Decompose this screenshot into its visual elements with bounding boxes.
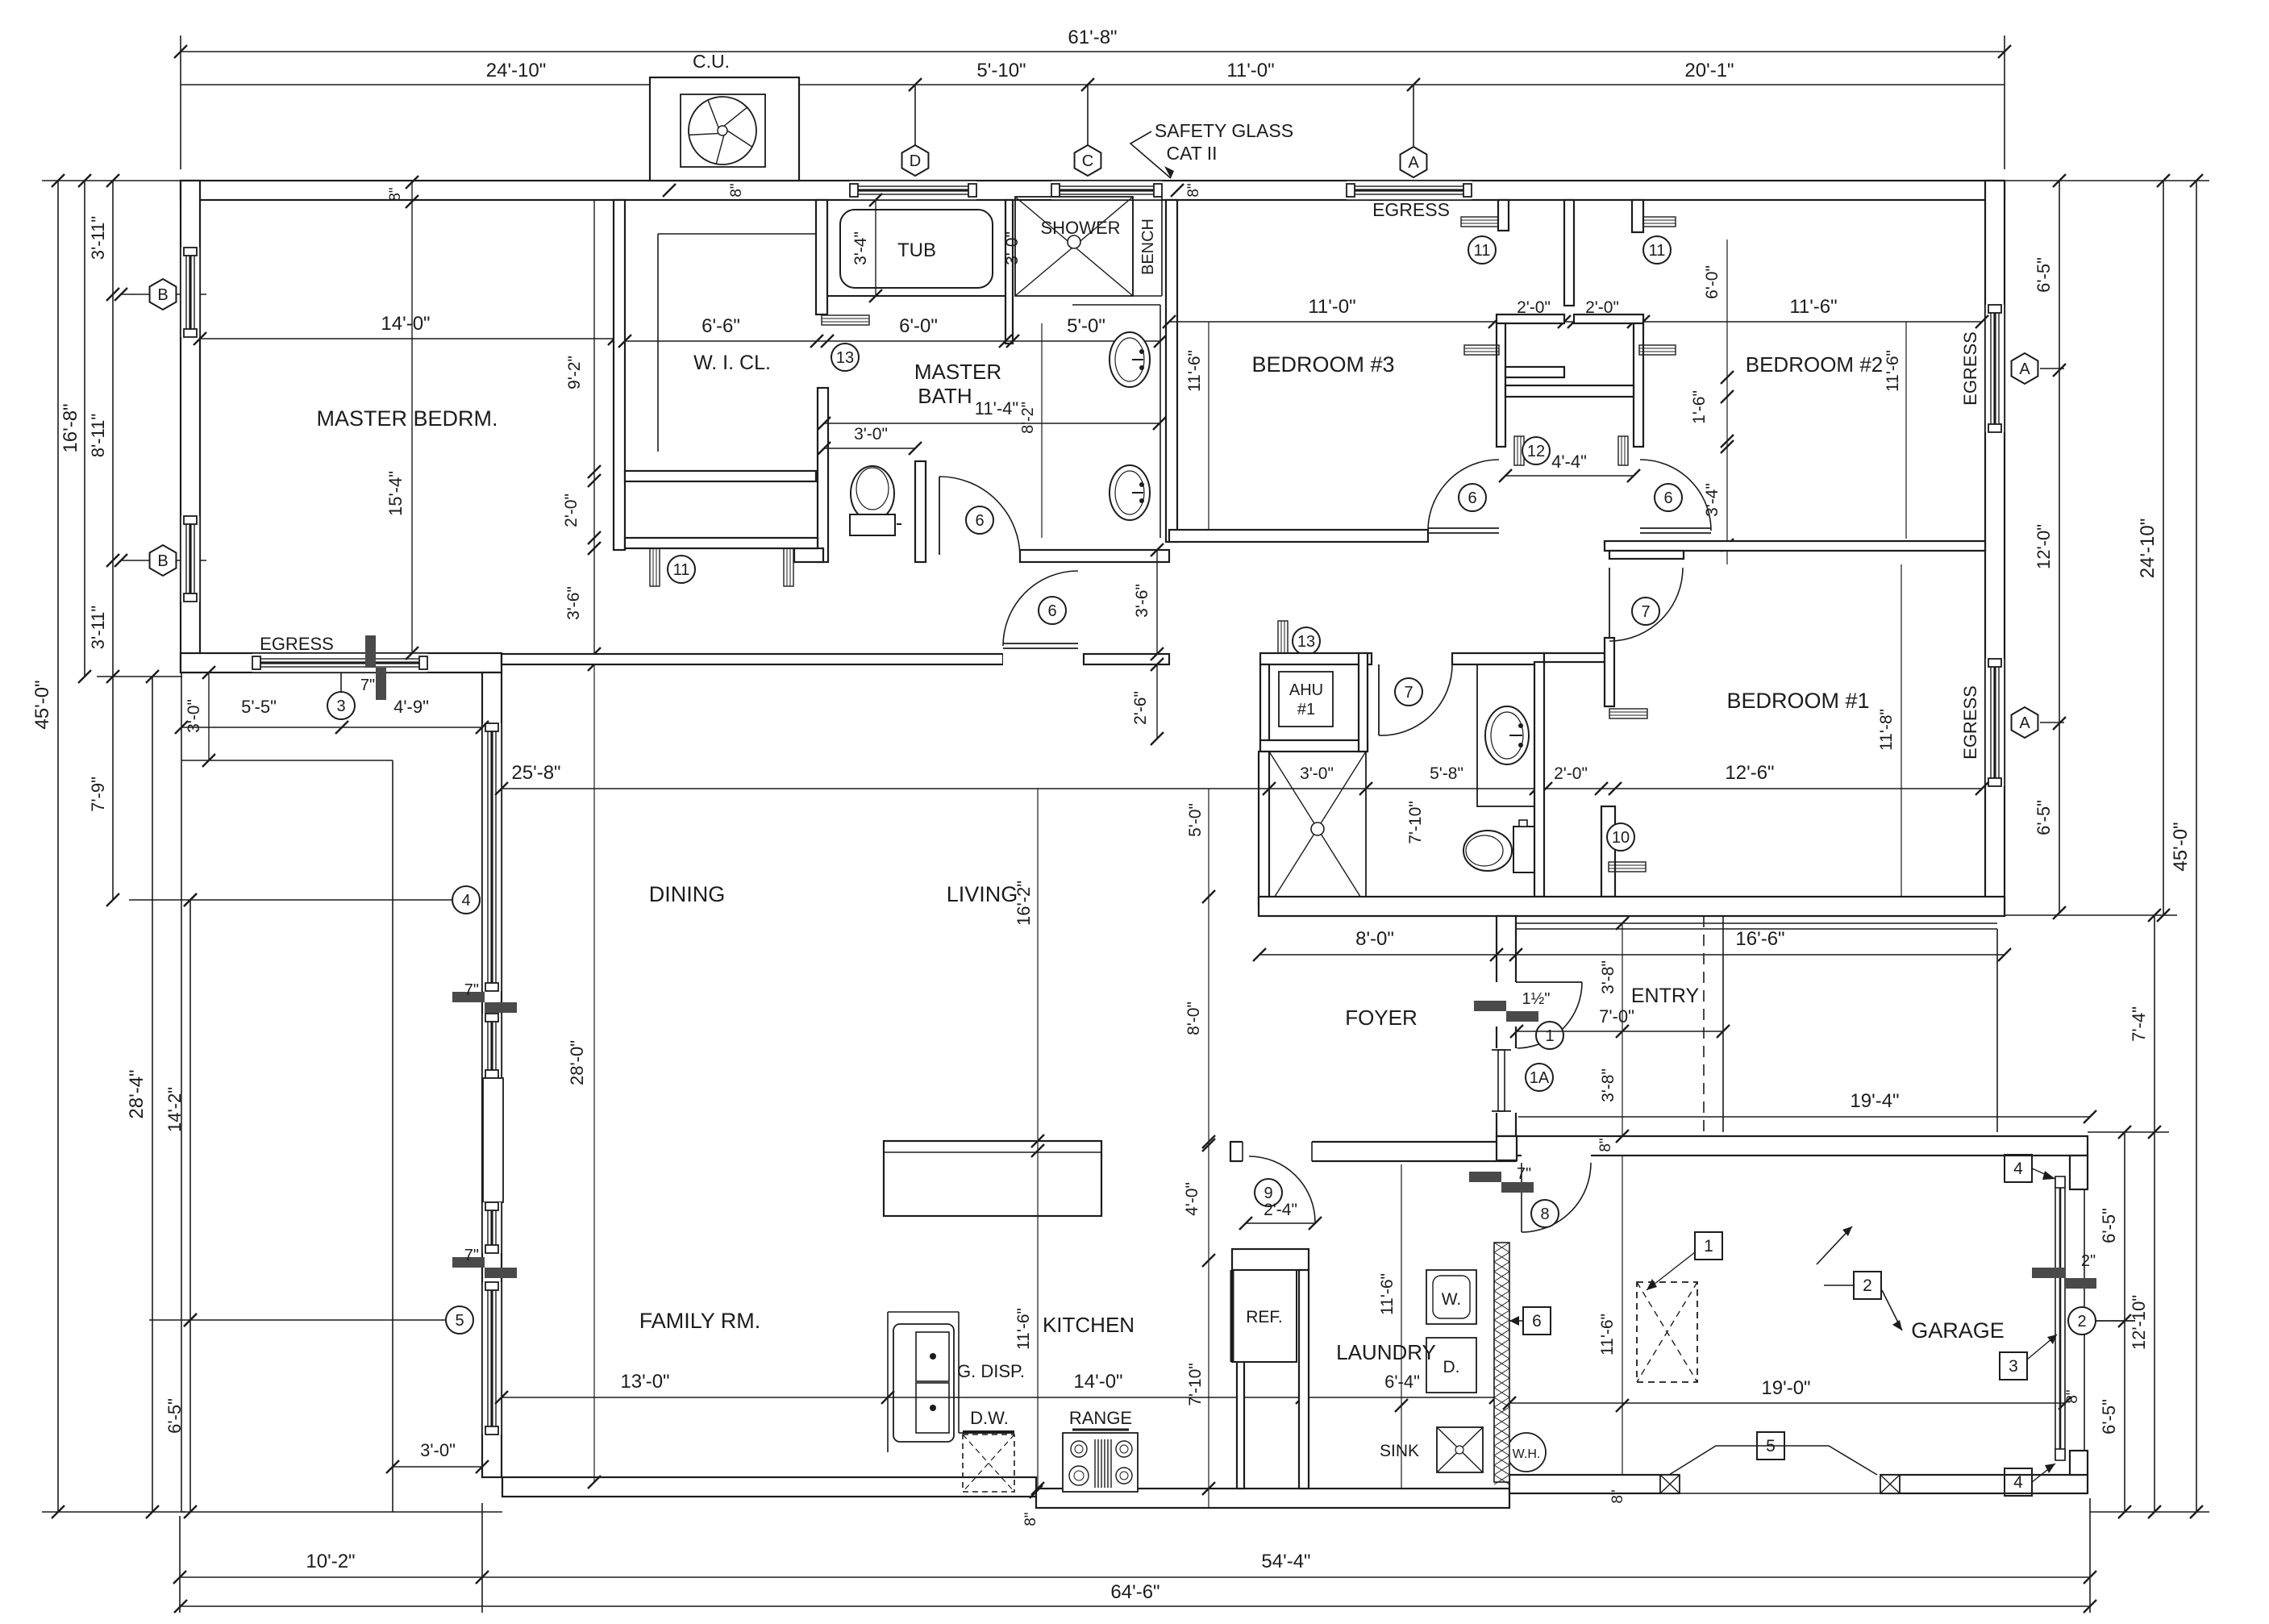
dim 2'-4" pantry — [1246, 1222, 1315, 1224]
callout 12 closets — [1522, 437, 1550, 464]
svg-text:11: 11 — [673, 561, 690, 579]
closet rod bedroom3 top — [1461, 217, 1498, 227]
svg-text:4: 4 — [2013, 1160, 2023, 1178]
dim 9'-2" WIC — [593, 200, 595, 664]
svg-text:54'-4": 54'-4" — [1261, 1551, 1310, 1572]
refrigerator niche — [1232, 1249, 1309, 1270]
dim 7'-0" entry — [1517, 1031, 1723, 1032]
dim 2'-6" AHU — [1156, 664, 1158, 739]
garage door opening — [1680, 1473, 1880, 1495]
kitchen sink double — [893, 1324, 954, 1442]
garage east window band — [2055, 1176, 2056, 1460]
svg-text:A: A — [2019, 714, 2030, 732]
svg-text:11'-6": 11'-6" — [1378, 1273, 1397, 1315]
svg-text:C.U.: C.U. — [693, 51, 730, 72]
window master bedroom west upper — [181, 248, 200, 337]
future X dashed — [1637, 1282, 1697, 1382]
svg-text:BEDROOM #2: BEDROOM #2 — [1746, 352, 1884, 377]
wall bottom garage — [1509, 1475, 2088, 1493]
wall bedroom3 south — [1169, 530, 1428, 542]
wall bedroom2 south — [1605, 541, 1985, 551]
svg-text:G. DISP.: G. DISP. — [957, 1361, 1025, 1381]
svg-text:3'-0": 3'-0" — [420, 1440, 456, 1460]
svg-text:4'-4": 4'-4" — [1551, 452, 1587, 472]
svg-text:11'-4": 11'-4" — [975, 398, 1018, 418]
grid bubble B upper — [121, 294, 206, 295]
svg-text:10: 10 — [1612, 829, 1630, 847]
svg-text:D.W.: D.W. — [970, 1408, 1009, 1428]
tag 1 garage — [1695, 1232, 1722, 1260]
dim 14'-0" master — [200, 338, 614, 339]
svg-text:19'-0": 19'-0" — [1761, 1377, 1810, 1399]
svg-text:SAFETY GLASS: SAFETY GLASS — [1155, 120, 1293, 141]
entry porch line top — [1517, 922, 1997, 924]
dim row 11'-0"/2'-0"/2'-0"/11'-6" — [1169, 321, 1982, 323]
dim row center 25'-8" etc — [502, 788, 1982, 789]
wall hall-bath top — [1452, 653, 1544, 664]
svg-text:8": 8" — [728, 183, 745, 197]
garage door tag 5 — [1757, 1432, 1784, 1460]
svg-text:14'-0": 14'-0" — [381, 313, 430, 335]
entry porch line right — [1996, 929, 1998, 1132]
wall foyer east — [1497, 916, 1516, 1136]
dim 3'-4" tub — [875, 200, 876, 296]
porch slab edge left — [181, 673, 182, 1512]
svg-text:6: 6 — [975, 512, 984, 530]
svg-text:15'-4": 15'-4" — [385, 471, 406, 516]
wall closet b2 east — [1634, 323, 1643, 447]
grid bubble D — [914, 85, 916, 147]
grid bubble A right lower — [2012, 707, 2038, 738]
svg-text:7": 7" — [464, 1247, 479, 1264]
svg-text:EGRESS: EGRESS — [1372, 199, 1450, 220]
door slab family west — [483, 1078, 503, 1202]
svg-text:7'-4": 7'-4" — [2129, 1006, 2149, 1042]
wall AHU west — [1260, 664, 1269, 752]
svg-text:1: 1 — [1704, 1237, 1713, 1255]
svg-text:CAT II: CAT II — [1166, 143, 1217, 164]
svg-text:2'-0": 2'-0" — [1554, 764, 1588, 783]
svg-text:8'-0": 8'-0" — [1355, 928, 1394, 950]
garage door track — [1669, 1446, 1877, 1475]
svg-text:24'-10": 24'-10" — [2137, 518, 2159, 578]
wall right exterior bedroom wing — [1985, 181, 2005, 915]
wall closet b3 south — [1505, 367, 1564, 377]
svg-text:3'-4": 3'-4" — [851, 231, 870, 265]
svg-text:A: A — [2019, 360, 2030, 378]
porch slab edge top — [181, 760, 393, 761]
svg-text:AHU: AHU — [1289, 681, 1323, 699]
water heater — [1507, 1433, 1546, 1472]
svg-text:8": 8" — [2064, 1389, 2081, 1403]
dim row 13'-0"/14'-0" — [502, 1397, 1302, 1398]
dim 3'-6" hall right — [1156, 550, 1158, 654]
svg-text:24'-10": 24'-10" — [486, 60, 546, 81]
svg-text:8'-11": 8'-11" — [88, 414, 108, 457]
svg-text:11: 11 — [1474, 242, 1491, 260]
svg-text:11'-0": 11'-0" — [1308, 296, 1355, 318]
svg-text:13: 13 — [836, 349, 854, 367]
svg-text:3'-8": 3'-8" — [1599, 960, 1617, 994]
wall garage SE corner — [2070, 1451, 2088, 1475]
dim 11'-6" bedroom3 — [1208, 322, 1209, 540]
svg-text:11'-6": 11'-6" — [1789, 296, 1837, 318]
svg-text:3: 3 — [336, 697, 345, 715]
svg-text:5'-10": 5'-10" — [976, 60, 1026, 81]
window tag 2 circle — [2068, 1307, 2096, 1335]
svg-text:6'-5": 6'-5" — [2099, 1208, 2119, 1243]
door 7 bedroom1 — [1605, 638, 1614, 706]
svg-text:W.: W. — [1442, 1290, 1462, 1309]
dim col 3'-11"/8'-11"/3'-11"/7'-9" — [112, 181, 114, 900]
wall bed1 hall top — [1544, 653, 1605, 662]
wall south bedroom wing — [1259, 897, 2005, 916]
svg-text:6'-5": 6'-5" — [2099, 1399, 2119, 1435]
wall master bath west — [816, 200, 827, 314]
svg-text:1: 1 — [1545, 1027, 1554, 1045]
svg-text:6'-0": 6'-0" — [899, 315, 938, 337]
svg-text:16'-6": 16'-6" — [1735, 928, 1784, 950]
wall hall north — [625, 538, 818, 548]
dim 4'-4" closets — [1505, 475, 1634, 477]
svg-text:#1: #1 — [1297, 701, 1315, 718]
svg-text:13'-0": 13'-0" — [620, 1371, 669, 1393]
dim row 24'-10"/5'-10"/11'-0"/20'-1" — [181, 84, 2005, 85]
window egress master bedroom — [252, 653, 427, 673]
door 7 AHU hall — [1378, 664, 1380, 735]
svg-text:8: 8 — [1540, 1206, 1549, 1223]
entry column line dashed — [1703, 916, 1705, 1132]
svg-text:ENTRY: ENTRY — [1631, 985, 1700, 1007]
svg-text:3'-0": 3'-0" — [1300, 764, 1334, 783]
svg-text:D: D — [910, 152, 921, 170]
dim 3'-0" family slab — [393, 1466, 482, 1468]
svg-text:28'-4": 28'-4" — [126, 1069, 148, 1118]
dim line 28'-4" left — [152, 677, 153, 1512]
svg-text:7'-0": 7'-0" — [1599, 1006, 1634, 1026]
wall garage-entry north — [1516, 1136, 2088, 1156]
dim line 24'-10" right — [2163, 181, 2164, 915]
svg-text:45'-0": 45'-0" — [2170, 822, 2192, 871]
dim 3'-0" toilet nook — [824, 448, 915, 449]
svg-text:B: B — [157, 552, 168, 570]
svg-text:1A: 1A — [1530, 1069, 1550, 1087]
svg-text:5'-0": 5'-0" — [1067, 315, 1105, 337]
dim row 6'-6"/6'-0"/5'-0" — [625, 340, 1160, 342]
AHU unit — [1279, 672, 1333, 727]
svg-text:25'-8": 25'-8" — [511, 762, 560, 784]
svg-text:6'-5": 6'-5" — [2034, 800, 2054, 835]
svg-text:8'-0": 8'-0" — [1184, 1001, 1203, 1035]
condensing unit C.U. — [650, 77, 799, 181]
svg-text:4'-9": 4'-9" — [393, 697, 429, 717]
callout line 5 — [149, 1319, 447, 1321]
svg-text:2": 2" — [2081, 1252, 2096, 1270]
svg-text:7: 7 — [1404, 684, 1413, 702]
svg-text:14'-0": 14'-0" — [1073, 1371, 1122, 1393]
svg-text:3'-6": 3'-6" — [1133, 584, 1151, 618]
pocket door 11 left — [650, 538, 660, 586]
porch slab edge vertical — [392, 760, 393, 1512]
wall toilet nook east — [915, 461, 926, 562]
window A egress bedroom3 — [1347, 181, 1472, 200]
svg-text:8": 8" — [1597, 1138, 1614, 1151]
svg-text:7'-10": 7'-10" — [1186, 1363, 1205, 1406]
wall AHU east — [1359, 653, 1368, 752]
svg-text:6: 6 — [1468, 489, 1476, 507]
svg-text:3: 3 — [2009, 1357, 2018, 1376]
svg-text:KITCHEN: KITCHEN — [1043, 1313, 1134, 1337]
dim 11'-4" master bath — [824, 423, 1159, 424]
svg-text:8'-2": 8'-2" — [1019, 402, 1037, 434]
svg-text:5'-5": 5'-5" — [241, 697, 277, 717]
wall bath2 east — [1534, 662, 1544, 897]
sink counter master — [1159, 305, 1161, 538]
svg-text:11'-6": 11'-6" — [1884, 350, 1902, 392]
wall master bath south — [1020, 550, 1169, 562]
svg-text:B: B — [157, 286, 168, 304]
dim 3'-0" porch offset — [208, 673, 210, 760]
window egress bedroom2 east — [1985, 305, 2005, 432]
washer — [1426, 1270, 1476, 1324]
dim line 64'-6" bottom — [181, 1605, 2090, 1607]
svg-text:8": 8" — [387, 187, 404, 201]
svg-text:12'-0": 12'-0" — [2034, 524, 2054, 569]
svg-text:FAMILY RM.: FAMILY RM. — [639, 1309, 761, 1333]
window 13 hall — [1278, 621, 1288, 658]
svg-text:6'-6": 6'-6" — [702, 315, 740, 337]
svg-text:2: 2 — [2077, 1313, 2086, 1330]
svg-text:4: 4 — [461, 892, 470, 910]
svg-text:SINK: SINK — [1380, 1442, 1419, 1460]
svg-text:EGRESS: EGRESS — [1960, 685, 1980, 760]
dim 19'-4" entry — [1518, 1116, 2090, 1118]
svg-text:12'-10": 12'-10" — [2129, 1295, 2149, 1350]
svg-text:MASTER BEDRM.: MASTER BEDRM. — [316, 406, 498, 431]
svg-text:9'-2": 9'-2" — [565, 356, 584, 389]
shear door 1 — [1474, 1001, 1506, 1011]
svg-text:45'-0": 45'-0" — [31, 680, 53, 729]
svg-text:LAUNDRY: LAUNDRY — [1336, 1340, 1436, 1364]
front door 1 — [1495, 982, 1518, 1026]
svg-text:LIVING: LIVING — [947, 882, 1018, 906]
svg-text:3'-6": 3'-6" — [564, 586, 583, 620]
svg-text:7: 7 — [1641, 603, 1650, 621]
bath2 vanity — [1477, 664, 1535, 806]
svg-text:W. I. CL.: W. I. CL. — [693, 352, 771, 374]
wall closet divider north — [1564, 200, 1574, 306]
window master bedroom west lower — [181, 516, 200, 602]
svg-text:3'-0": 3'-0" — [854, 425, 888, 443]
svg-text:BEDROOM #3: BEDROOM #3 — [1251, 352, 1394, 377]
svg-text:7": 7" — [1517, 1165, 1531, 1183]
callout line 4 — [129, 899, 453, 901]
kitchen island — [884, 1141, 1101, 1216]
svg-text:28'-0": 28'-0" — [567, 1040, 587, 1085]
svg-text:SHOWER: SHOWER — [1041, 218, 1121, 238]
svg-text:BATH: BATH — [918, 384, 972, 408]
svg-text:11'-8": 11'-8" — [1877, 709, 1896, 751]
svg-text:2'-6": 2'-6" — [1131, 691, 1150, 725]
tub — [840, 210, 993, 288]
wall bedroom1 north stub — [1609, 551, 1684, 559]
grid bubble A right upper — [2012, 353, 2038, 384]
svg-text:4: 4 — [2013, 1473, 2023, 1492]
svg-text:7": 7" — [360, 677, 375, 694]
grid bubble C — [1087, 85, 1089, 147]
window family west upper — [482, 1014, 502, 1078]
dim col 14'-2"/6'-5" left — [189, 900, 191, 1512]
shear door 8 — [1469, 1172, 1501, 1182]
porch slab edge bottom — [181, 1511, 502, 1513]
wall foyer south — [1230, 1142, 1516, 1161]
shower bath2 — [1269, 752, 1366, 906]
svg-text:5'-0": 5'-0" — [1186, 803, 1205, 837]
svg-text:7'-10": 7'-10" — [1406, 801, 1425, 844]
entry edge line — [1722, 916, 1724, 1132]
window D master bath — [850, 181, 976, 200]
tag 2 garage — [1817, 1226, 1852, 1264]
kitchen counter — [887, 1312, 889, 1452]
pocket door 13 master bath — [822, 315, 869, 325]
dim col 6'-5"/12'-0"/6'-5" right — [2059, 181, 2060, 913]
toilet bath2 — [1463, 831, 1512, 871]
svg-text:5: 5 — [455, 1312, 464, 1330]
dim row 10'-2"/54'-4" — [180, 1576, 2090, 1578]
svg-text:2'-0": 2'-0" — [562, 493, 581, 527]
svg-text:12'-6": 12'-6" — [1725, 762, 1774, 784]
closet rod b3 — [1464, 345, 1499, 355]
shear block garage window — [2032, 1268, 2064, 1278]
svg-text:16'-8": 16'-8" — [60, 403, 81, 452]
closet bedroom1 SW — [1601, 806, 1615, 897]
pocket door 12 right — [1618, 436, 1628, 465]
wall top exterior — [181, 181, 2005, 200]
shower master — [1015, 197, 1133, 296]
pocket door 11 right — [784, 538, 793, 586]
window tag 4 upper — [2005, 1155, 2032, 1182]
wall AHU closet top — [1260, 653, 1372, 664]
svg-text:6: 6 — [1663, 489, 1672, 507]
window dining west — [482, 723, 502, 991]
svg-text:7'-9": 7'-9" — [88, 777, 108, 812]
door 6 hall opening — [1003, 652, 1084, 666]
wall master bedroom south — [181, 653, 502, 673]
svg-text:3'-8": 3'-8" — [1599, 1068, 1617, 1102]
window C shower — [1051, 181, 1162, 200]
wall bottom kitchen — [1036, 1489, 1509, 1508]
wall bottom family — [502, 1477, 1036, 1497]
svg-text:19'-4": 19'-4" — [1850, 1090, 1899, 1112]
wall dining north — [502, 654, 1003, 664]
svg-text:EGRESS: EGRESS — [260, 634, 334, 654]
dim 6'-4" laundry — [1309, 1397, 1496, 1398]
svg-text:BENCH: BENCH — [1139, 219, 1157, 275]
closet rod bedroom2 top — [1638, 217, 1676, 227]
svg-text:D.: D. — [1443, 1358, 1460, 1376]
WIC shelf lines — [658, 233, 816, 235]
door 1A sidelight — [1495, 1048, 1518, 1113]
svg-text:REF.: REF. — [1246, 1308, 1283, 1326]
wall west dining-family — [482, 673, 502, 1477]
svg-text:5'-8": 5'-8" — [1430, 764, 1463, 783]
svg-text:3'-0": 3'-0" — [1003, 231, 1022, 265]
wall closet b3 west — [1497, 323, 1505, 447]
svg-text:1'-6": 1'-6" — [1690, 390, 1709, 424]
dim col 7'-4"/12'-10" right — [2154, 915, 2155, 1512]
svg-text:8": 8" — [1609, 1489, 1626, 1503]
svg-text:13: 13 — [1297, 633, 1315, 651]
door 6 bedroom3 — [1428, 527, 1499, 529]
lavatory master lower — [1110, 465, 1150, 520]
wall left exterior — [181, 181, 200, 673]
shear block master egress — [365, 635, 376, 668]
dim row 8'-0"/16'-6" — [1259, 954, 2005, 956]
svg-text:16'-2": 16'-2" — [1014, 881, 1034, 926]
grid bubble A top — [1413, 85, 1414, 148]
wall WIC south — [625, 471, 816, 481]
svg-text:1½": 1½" — [1522, 990, 1551, 1008]
wall closet band — [1497, 314, 1564, 323]
pocket door 12 left — [1514, 436, 1524, 465]
garage door jamb X right — [1880, 1475, 1900, 1493]
bench — [1132, 197, 1134, 296]
dim 15'-4" master — [411, 181, 413, 653]
svg-text:11'-6": 11'-6" — [1598, 1314, 1617, 1355]
svg-text:C: C — [1082, 152, 1093, 170]
svg-text:3'-11": 3'-11" — [88, 606, 108, 649]
svg-text:5: 5 — [1766, 1437, 1776, 1455]
svg-text:2'-4": 2'-4" — [1264, 1201, 1297, 1219]
dim 19'-0" garage — [1509, 1402, 2065, 1404]
svg-text:BEDROOM #1: BEDROOM #1 — [1726, 689, 1869, 713]
grid bubble B lower — [121, 560, 206, 561]
svg-text:RANGE: RANGE — [1069, 1408, 1132, 1428]
svg-text:6'-5": 6'-5" — [2034, 257, 2054, 293]
svg-text:11'-6": 11'-6" — [1014, 1308, 1033, 1350]
wall hall south right — [1084, 654, 1169, 664]
svg-text:3'-4": 3'-4" — [1703, 483, 1722, 517]
svg-text:4'-0": 4'-0" — [1183, 1182, 1201, 1216]
window family west lower — [482, 1282, 502, 1435]
shear block family wall — [452, 1257, 485, 1268]
svg-text:A: A — [1408, 154, 1419, 172]
dim line 45'-0" right — [2196, 181, 2197, 1512]
pantry door 9 — [1243, 1140, 1312, 1163]
svg-text:6'-0": 6'-0" — [1703, 265, 1722, 299]
wall garage NE corner — [2070, 1156, 2088, 1189]
firewall tag 6 — [1523, 1307, 1551, 1335]
lavatory master upper — [1110, 332, 1150, 387]
dim line 45'-0" left — [57, 181, 59, 1512]
svg-text:20'-1": 20'-1" — [1684, 60, 1734, 81]
wall master bath west lower — [818, 388, 828, 562]
tub enclosure — [827, 295, 1005, 297]
svg-text:11: 11 — [1649, 242, 1666, 260]
svg-text:DINING: DINING — [649, 882, 726, 906]
svg-text:W.H.: W.H. — [1513, 1447, 1541, 1461]
refrigerator — [1232, 1270, 1297, 1362]
svg-text:6: 6 — [1532, 1312, 1542, 1330]
svg-text:9: 9 — [1264, 1185, 1272, 1202]
closet rod bedroom1 — [1609, 709, 1647, 718]
closet rod b2 — [1639, 345, 1676, 355]
svg-text:8": 8" — [1185, 183, 1202, 197]
dim line 61'-8" overall top — [181, 51, 2005, 52]
door 8 — [1522, 1140, 1591, 1163]
dim line 16'-8" left — [84, 181, 85, 677]
callout 11 master hall — [668, 556, 695, 583]
